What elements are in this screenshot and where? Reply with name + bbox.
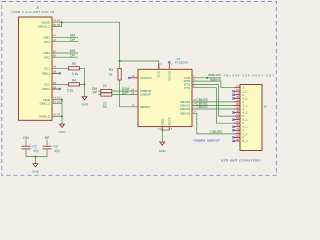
- svg-text:SHIELD: SHIELD: [39, 114, 51, 118]
- svg-text:CBUS3: CBUS3: [211, 130, 222, 134]
- svg-text:C3: C3: [54, 145, 58, 149]
- svg-text:8B: 8B: [236, 138, 239, 142]
- svg-text:R2: R2: [103, 105, 107, 109]
- svg-text:22: 22: [103, 84, 107, 88]
- svg-text:DP: DP: [70, 38, 75, 42]
- svg-text:USBDP: USBDP: [140, 93, 151, 97]
- svg-text:3B: 3B: [236, 102, 239, 106]
- svg-text:DP: DP: [45, 136, 50, 140]
- svg-text:VCC: VCC: [157, 70, 161, 77]
- svg-text:GND: GND: [160, 118, 164, 126]
- svg-text:2B: 2B: [236, 95, 239, 99]
- svg-text:VCCIO: VCCIO: [167, 70, 171, 80]
- svg-text:CBUS3: CBUS3: [180, 111, 191, 115]
- svg-text:6B: 6B: [236, 123, 239, 127]
- svg-text:C2: C2: [33, 145, 37, 149]
- svg-text:8A: 8A: [236, 134, 239, 138]
- svg-text:7B: 7B: [236, 130, 239, 134]
- svg-text:DM: DM: [70, 34, 75, 38]
- svg-text:TEST: TEST: [167, 118, 171, 126]
- svg-text:CTS: CTS: [184, 86, 190, 90]
- svg-text:usb-uart conversion: usb-uart conversion: [221, 159, 261, 163]
- svg-text:TBL009-254-06GY-2GY: TBL009-254-06GY-2GY: [224, 73, 276, 77]
- svg-text:DP: DP: [70, 53, 75, 57]
- svg-text:VBUS_1: VBUS_1: [38, 25, 50, 29]
- svg-text:SBU2: SBU2: [42, 87, 50, 91]
- svg-text:GND: GND: [59, 130, 67, 134]
- svg-text:R5: R5: [72, 62, 76, 66]
- svg-text:6A: 6A: [236, 120, 239, 124]
- svg-text:data-in: data-in: [210, 77, 220, 81]
- svg-text:FT230XS: FT230XS: [175, 61, 188, 65]
- svg-text:GND_1: GND_1: [40, 101, 51, 105]
- svg-text:GND: GND: [81, 102, 89, 106]
- svg-text:5A: 5A: [236, 113, 239, 117]
- svg-text:CBUS2: CBUS2: [196, 105, 207, 109]
- svg-text:1B: 1B: [236, 88, 239, 92]
- svg-text:47p: 47p: [33, 149, 39, 153]
- svg-text:5.1k: 5.1k: [67, 89, 74, 93]
- svg-text:4B: 4B: [236, 109, 239, 113]
- svg-text:DM1: DM1: [43, 35, 50, 39]
- svg-text:3V3OUT: 3V3OUT: [140, 76, 152, 80]
- svg-text:2A: 2A: [236, 91, 239, 95]
- svg-text:maybe useful?: maybe useful?: [194, 138, 221, 143]
- svg-text:8_1: 8_1: [242, 139, 247, 143]
- svg-text:3A: 3A: [236, 98, 239, 102]
- svg-text:GND: GND: [159, 149, 167, 153]
- svg-text:J3: J3: [264, 105, 268, 109]
- svg-text:UJ2B-C-X-G-SMT-P16-TR: UJ2B-C-X-G-SMT-P16-TR: [12, 10, 55, 14]
- svg-text:1k: 1k: [109, 72, 113, 76]
- svg-text:R4: R4: [72, 78, 76, 82]
- svg-text:D2P: D2P: [122, 91, 129, 95]
- svg-text:DP: DP: [93, 91, 98, 95]
- svg-text:DP2: DP2: [44, 55, 50, 59]
- svg-text:1A: 1A: [236, 84, 239, 88]
- svg-text:7A: 7A: [236, 127, 239, 131]
- svg-text:GND: GND: [32, 169, 40, 173]
- svg-text:CC1: CC1: [44, 66, 50, 70]
- svg-text:RESET: RESET: [140, 105, 150, 109]
- svg-text:5B: 5B: [236, 116, 239, 120]
- svg-text:5.1k: 5.1k: [72, 72, 79, 76]
- svg-text:DP1: DP1: [44, 40, 50, 44]
- svg-text:DM: DM: [23, 136, 28, 140]
- svg-text:A1,B12: A1,B12: [53, 95, 62, 99]
- svg-text:4A: 4A: [236, 106, 239, 110]
- svg-text:47p: 47p: [54, 149, 60, 153]
- svg-text:J5: J5: [36, 6, 40, 10]
- svg-text:SBU1: SBU1: [42, 71, 50, 75]
- svg-text:CC2: CC2: [44, 83, 50, 87]
